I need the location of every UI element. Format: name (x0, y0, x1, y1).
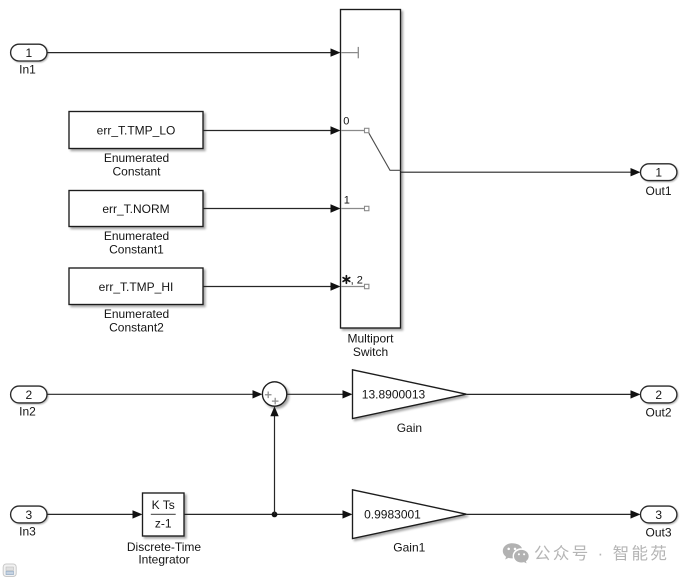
svg-text:Enumerated: Enumerated (104, 307, 169, 321)
wire Gain to Out2 (466, 390, 640, 398)
corner widget button (3, 564, 16, 577)
svg-text:In3: In3 (19, 525, 36, 539)
svg-text:Switch: Switch (353, 345, 388, 359)
svg-text:1: 1 (25, 46, 32, 60)
junction dot (272, 512, 278, 518)
svg-text:Out3: Out3 (645, 526, 671, 540)
svg-text:Gain1: Gain1 (393, 541, 425, 555)
gain block Gain (353, 370, 467, 435)
svg-text:3: 3 (25, 508, 32, 522)
svg-text:0: 0 (343, 116, 349, 128)
svg-text:Enumerated: Enumerated (104, 229, 169, 243)
gain block Gain1 (353, 490, 467, 555)
svg-text:1: 1 (344, 194, 350, 206)
svg-text:err_T.NORM: err_T.NORM (102, 202, 169, 216)
switch control stub (341, 47, 358, 58)
switch port *,2 label (343, 276, 350, 284)
inport In2 (11, 386, 47, 419)
svg-text:In1: In1 (19, 63, 36, 77)
svg-text:K Ts: K Ts (152, 498, 175, 512)
svg-text:13.8900013: 13.8900013 (362, 388, 426, 402)
wire In1 to switch control (47, 48, 341, 56)
watermark wechat icon (503, 543, 529, 563)
switch port *,2 stub (341, 284, 369, 288)
svg-text:err_T.TMP_HI: err_T.TMP_HI (99, 280, 174, 294)
wire err_T.TMP_LO to switch port 0 (203, 126, 341, 134)
wire junction up to sum (270, 406, 278, 514)
wire In3 to integrator (47, 510, 143, 518)
inport In3 (11, 506, 47, 538)
svg-text:2: 2 (25, 388, 32, 402)
svg-text:3: 3 (655, 508, 662, 522)
svg-text:Constant1: Constant1 (109, 243, 164, 257)
svg-text:2: 2 (655, 388, 662, 402)
multiport switch block (341, 10, 401, 329)
wire integrator to junction to Gain1 (184, 510, 353, 518)
outport Out3 (641, 506, 677, 539)
svg-text:Out1: Out1 (645, 184, 671, 198)
svg-text:z-1: z-1 (155, 517, 172, 531)
wire sum to Gain (287, 390, 353, 398)
wire In2 to sum (47, 390, 263, 398)
switch label (347, 331, 394, 359)
svg-text:Constant2: Constant2 (109, 320, 164, 334)
svg-text:Integrator: Integrator (138, 553, 189, 567)
svg-text:0.9983001: 0.9983001 (364, 508, 421, 522)
constant block err_T.TMP_LO (69, 112, 203, 179)
switch selector diagonal (369, 133, 401, 170)
switch port 0 stub (341, 128, 369, 132)
wire err_T.TMP_HI to switch port *,2 (203, 282, 341, 290)
svg-text:1: 1 (655, 166, 662, 180)
constant block err_T.NORM (69, 191, 203, 257)
svg-text:Out2: Out2 (645, 406, 671, 420)
switch port 1 stub (341, 206, 369, 210)
svg-text:, 2: , 2 (351, 274, 363, 286)
discrete-time integrator block (127, 493, 202, 567)
sum block (262, 382, 286, 406)
svg-text:公众号 · 智能苑: 公众号 · 智能苑 (534, 544, 669, 563)
svg-text:Gain: Gain (397, 421, 422, 435)
svg-text:Constant: Constant (112, 165, 161, 179)
svg-text:Enumerated: Enumerated (104, 151, 169, 165)
svg-text:err_T.TMP_LO: err_T.TMP_LO (97, 124, 176, 138)
constant block err_T.TMP_HI (69, 268, 203, 334)
svg-text:In2: In2 (19, 405, 36, 419)
wire switch to Out1 (401, 168, 641, 176)
svg-text:Multiport: Multiport (347, 331, 394, 345)
wire Gain1 to Out3 (466, 510, 640, 518)
wire err_T.NORM to switch port 1 (203, 204, 341, 212)
outport Out2 (641, 386, 677, 419)
inport In1 (11, 44, 47, 76)
outport Out1 (641, 164, 677, 198)
